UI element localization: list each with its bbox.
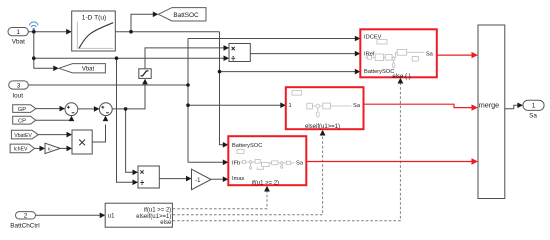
svg-text:BatterySOC: BatterySOC [364, 69, 394, 75]
svg-text:if(u1 >= 2): if(u1 >= 2) [144, 207, 171, 213]
svg-text:Sa: Sa [426, 52, 434, 58]
svg-text:K-: K- [48, 146, 53, 151]
svg-text:elseif(u1>=1): elseif(u1>=1) [305, 124, 340, 130]
svg-text:BattSOC: BattSOC [173, 12, 199, 19]
svg-text:Sa: Sa [529, 113, 537, 120]
svg-text:Sa: Sa [353, 103, 361, 109]
svg-text:-1: -1 [195, 178, 201, 184]
svg-text:1: 1 [289, 103, 292, 109]
svg-text:IFb: IFb [232, 160, 240, 166]
svg-text:1: 1 [532, 103, 536, 110]
svg-text:2: 2 [24, 213, 28, 220]
svg-text:VbatEV: VbatEV [14, 133, 32, 139]
svg-text:else { }: else { } [392, 74, 410, 80]
svg-text:BatterySOC: BatterySOC [232, 143, 262, 149]
svg-text:CP: CP [18, 118, 26, 124]
svg-text:elseif(u1>=1): elseif(u1>=1) [136, 214, 171, 220]
svg-text:IchEV: IchEV [14, 147, 28, 153]
svg-text:merge: merge [479, 100, 499, 109]
svg-text:if(u1 >= 2): if(u1 >= 2) [252, 180, 279, 186]
svg-text:BattChCtrl: BattChCtrl [10, 222, 39, 229]
svg-text:else: else [160, 220, 172, 226]
svg-text:3: 3 [17, 82, 21, 89]
svg-text:u1: u1 [108, 214, 115, 220]
svg-text:Sa: Sa [296, 160, 304, 166]
svg-text:Vbat: Vbat [82, 67, 95, 73]
svg-text:1: 1 [16, 29, 20, 36]
svg-text:Iout: Iout [12, 92, 23, 99]
svg-text:Imax: Imax [232, 176, 244, 182]
svg-text:1-D T(u): 1-D T(u) [82, 15, 106, 22]
svg-text:GP: GP [18, 107, 27, 113]
svg-text:IDCEV: IDCEV [364, 34, 382, 40]
svg-text:Vbat: Vbat [12, 39, 25, 46]
svg-text:IRef: IRef [364, 52, 375, 58]
